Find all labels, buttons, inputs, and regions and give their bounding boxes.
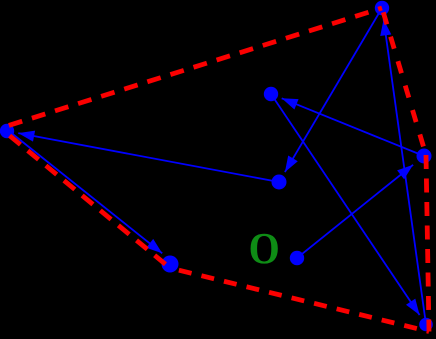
red dashed hull edge R2-R3 right (426, 155, 429, 332)
svg-text:O: O (249, 225, 280, 273)
red dashed hull edge R1-R2 top-right (382, 8, 426, 155)
point polygon vertex A3 (bottom-right) (419, 318, 433, 332)
point origin point O (290, 251, 304, 265)
vector arrow P5 to P4 (7, 130, 162, 254)
red dashed hull edge R5-R4 bottom-left (7, 134, 170, 269)
vector arrow P8 to P2 (297, 165, 413, 258)
point interior point B1 (264, 87, 278, 101)
red dashed hull edge R3-R4 bottom (170, 268, 429, 332)
red dashed hull edge R1-R5 top-left (7, 8, 382, 126)
vector arrow P2 to P6 (282, 98, 424, 156)
vector arrow P1 to P7 (285, 8, 382, 172)
point polygon vertex A2 (right) (417, 149, 432, 164)
vector arrow P3 to P1 (380, 19, 426, 324)
vector arrow P6 to P3 (271, 94, 420, 315)
vector arrow P7 to P5 (18, 131, 279, 182)
point interior point B2 (272, 175, 287, 190)
point polygon vertex A4 (bottom) (162, 256, 179, 273)
point polygon vertex A5 (left) (0, 124, 14, 138)
point polygon vertex A1 (top) (375, 1, 389, 15)
